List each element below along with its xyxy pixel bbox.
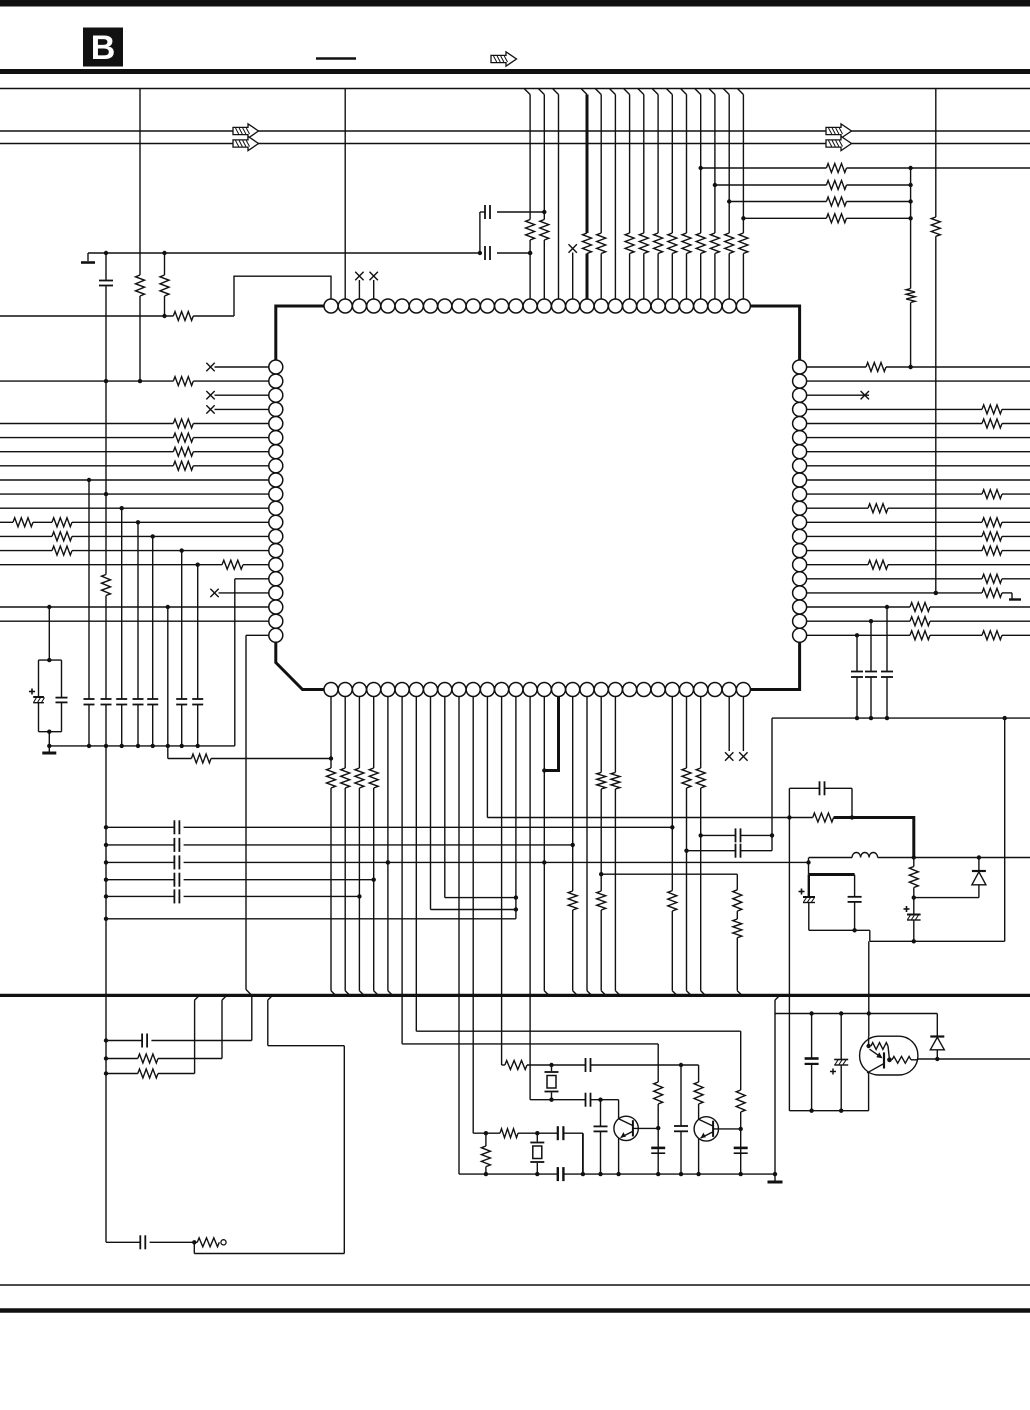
- wire row yA2: [530, 1099, 619, 1101]
- wire cap row 3: [106, 861, 809, 863]
- node junction yB1 x485: [484, 1131, 488, 1135]
- wire vertical x197: [197, 565, 199, 746]
- node junction x106 row4: [104, 878, 108, 882]
- capacitor C-supply-mid: [848, 875, 862, 931]
- wire cap loop: [789, 788, 852, 817]
- wire vertical x106 lower: [105, 705, 107, 1243]
- wire vertical x49: [48, 607, 50, 660]
- node junction T28 tap: [713, 183, 717, 187]
- wire vertical x740: [740, 1031, 742, 1174]
- node junction x910 y218: [908, 216, 912, 220]
- node junction T15 y253: [528, 251, 532, 255]
- wire row R10: [807, 493, 1030, 495]
- wire row yB1: [473, 1132, 583, 1134]
- wire vertical x138: [137, 522, 139, 746]
- wire tap x779: [775, 995, 780, 1013]
- node junction L18 x167: [166, 605, 170, 609]
- wire vertical x167: [167, 607, 169, 759]
- capacitor C-Q2base: [734, 1148, 748, 1153]
- wire row y201: [729, 201, 910, 203]
- node junction bus x89: [87, 744, 91, 748]
- resistor R-T19: [583, 233, 592, 254]
- resistor R-T27: [696, 233, 705, 254]
- resistor R-L6: [173, 433, 193, 442]
- resistor R-x485: [481, 1133, 490, 1174]
- node no-connect L4: [206, 405, 214, 413]
- node junction B1 y758: [329, 756, 333, 760]
- wire vertical x857: [856, 635, 858, 718]
- capacitor C-row2: [174, 838, 179, 852]
- wire row L10: [0, 493, 269, 495]
- wire pin B4 drop: [374, 697, 379, 996]
- resistor R-Q2coll: [694, 1082, 703, 1104]
- wire pin T22 drop: [624, 89, 630, 300]
- wire cap bus y746: [49, 745, 235, 747]
- wire vertical x152: [152, 536, 154, 746]
- wire row y918: [106, 918, 516, 920]
- resistor R-R19: [910, 617, 930, 626]
- resistor R-T30: [739, 233, 748, 254]
- wire bus line y143: [0, 143, 1030, 145]
- wire row L11: [0, 507, 269, 509]
- node junction x167 bus: [166, 744, 170, 748]
- wire pin B18 drop: [573, 697, 578, 996]
- resistor R-x164: [160, 253, 169, 316]
- wire row L16: [235, 578, 269, 580]
- resistor R-y758: [191, 754, 211, 763]
- node junction bus x121: [120, 744, 124, 748]
- wire tap x199: [195, 995, 200, 1073]
- node junction y1242: [192, 1240, 196, 1244]
- wire row L20: [246, 634, 269, 636]
- wire output row y1059: [918, 1058, 1030, 1060]
- resistor R-x737b: [733, 919, 742, 938]
- crystal X2: [530, 1133, 544, 1174]
- wire row y1253: [194, 1253, 344, 1255]
- node B section label: [83, 28, 123, 68]
- wire row y168: [701, 167, 911, 169]
- wire pin T15 drop: [524, 89, 530, 300]
- node junction y316 x164: [162, 314, 166, 318]
- resistor R-B27: [696, 768, 705, 788]
- wire row R3: [807, 391, 869, 399]
- node junction L14 tap: [180, 548, 184, 552]
- node junction x854 y930: [852, 928, 856, 932]
- resistor R-row201: [826, 197, 846, 206]
- wire pin B16 drop: [544, 697, 549, 996]
- capacitor C-cer-left: [56, 660, 68, 732]
- wire row R2: [807, 380, 1030, 382]
- resistor R-x140: [136, 275, 145, 296]
- wire x49 to bus: [48, 732, 50, 746]
- resistor R-row168: [826, 164, 846, 173]
- wire pin T29 drop: [723, 89, 729, 300]
- wire row L19: [0, 620, 269, 622]
- wire header dash: [316, 57, 356, 59]
- wire vertical x181: [181, 551, 183, 746]
- resistor R-B20a: [597, 772, 606, 789]
- wire row y758: [168, 758, 331, 760]
- wire row L6: [0, 437, 269, 439]
- wire row y941: [870, 940, 1005, 942]
- wire row L9: [0, 479, 269, 481]
- node junction x106 y1073: [104, 1071, 108, 1075]
- wire pin B10 drop: [458, 697, 460, 1175]
- node junction B9 row: [514, 895, 518, 899]
- resistor R-L13: [52, 532, 72, 541]
- wire vertical x935: [935, 89, 937, 593]
- capacitor C-rail: [558, 1167, 564, 1181]
- wire vertical x868 lower: [868, 1075, 870, 1111]
- capacitor C-elco-x913: [904, 888, 921, 942]
- resistor R-B1row: [500, 1129, 518, 1138]
- node junction rail x618: [616, 1172, 620, 1176]
- wire corner x869: [869, 930, 871, 941]
- node junction Q1 base: [656, 1126, 660, 1130]
- node junction x106 row3: [104, 860, 108, 864]
- wire pin L1 stub: [215, 366, 269, 368]
- wire row y1242: [106, 1241, 197, 1243]
- node junction rail x600: [598, 1172, 602, 1176]
- resistor R-B4: [369, 768, 378, 788]
- wire vertical x106 mid: [105, 596, 107, 700]
- wire vertical x887: [886, 607, 888, 718]
- wire vertical x789: [788, 818, 790, 1111]
- capacitor C-y850: [736, 844, 741, 858]
- node junction B4: [372, 878, 376, 882]
- wire pin B20 drop: [601, 697, 606, 996]
- wire vertical x871: [870, 621, 872, 718]
- wire row yA1: [502, 1064, 699, 1066]
- wire row R12: [807, 521, 1030, 523]
- resistor R-B26: [682, 768, 691, 788]
- resistor R-R1: [866, 363, 886, 372]
- resistor R-Q2base: [736, 1090, 745, 1112]
- node signal arrow a3: [826, 124, 852, 138]
- op-amp U1 IC body outline top-right: [743, 306, 799, 360]
- wire link to pin T1: [234, 276, 331, 316]
- capacitor C-elco-left: [29, 660, 62, 732]
- node junction B16: [542, 860, 546, 864]
- wire pin B7 drop: [415, 697, 417, 1032]
- resistor R-L12a: [13, 518, 33, 527]
- wire pin L3 stub: [215, 394, 269, 396]
- node junction B18: [571, 843, 575, 847]
- capacitor C-y212: [485, 205, 490, 219]
- resistor R-R11: [868, 504, 888, 513]
- node no-connect B29: [725, 752, 733, 760]
- node junction row3 x808: [806, 860, 810, 864]
- capacitor C-x871: [865, 672, 877, 678]
- wire vertical x737: [737, 874, 742, 995]
- diode D1: [972, 858, 986, 898]
- capacitor C-A2: [586, 1093, 591, 1107]
- capacitor C-x138: [133, 699, 144, 705]
- wire footer thick rule: [0, 1308, 1030, 1313]
- node terminal y1242: [221, 1240, 226, 1245]
- resistor R-B18: [568, 891, 577, 910]
- resistor R-T24: [654, 233, 663, 254]
- wire row R20: [807, 633, 1030, 637]
- resistor R-row218: [826, 214, 846, 223]
- node junction rail x537: [535, 1172, 539, 1176]
- resistor R-R18: [910, 603, 930, 612]
- resistor R-R20: [910, 631, 930, 640]
- node junction B5 row3: [386, 860, 390, 864]
- wire vertical x106 upper: [105, 381, 107, 574]
- node junction T30 tap: [741, 216, 745, 220]
- capacitor C-elco-x841: [830, 1014, 848, 1111]
- capacitor C-y835: [736, 828, 741, 842]
- resistor R-L2: [173, 377, 193, 386]
- wire thick row y874: [809, 873, 855, 876]
- resistor R-R14: [982, 546, 1002, 555]
- node junction L2 x106: [104, 379, 108, 383]
- node junction bus x197: [196, 744, 200, 748]
- resistor R-L8: [173, 461, 193, 470]
- resistor R-x910: [906, 289, 915, 303]
- resistor R-B1: [327, 768, 336, 788]
- resistor R-T28: [710, 233, 719, 254]
- resistor R-L14: [52, 546, 72, 555]
- resistor R-T15: [526, 220, 535, 241]
- wire vertical x582: [582, 1133, 584, 1174]
- wire row L15: [0, 564, 269, 566]
- resistor R-supply: [813, 813, 834, 822]
- node junction y253 x164: [162, 251, 166, 255]
- wire cap row 5: [106, 895, 359, 897]
- wire row y1040: [106, 1040, 252, 1042]
- node junction rail x658: [656, 1172, 660, 1176]
- wire pin T24 drop: [652, 89, 658, 300]
- wire vertical x868 upper: [868, 941, 870, 1036]
- capacitor C-row4: [174, 873, 179, 887]
- node junction y718 x857: [855, 716, 859, 720]
- wire pin B6 drop: [401, 697, 403, 1044]
- wire vertical x775 ground leg: [774, 1014, 776, 1175]
- node junction y253 x530: [528, 251, 532, 255]
- resistor R-T29: [725, 233, 734, 254]
- resistor R-L15: [222, 560, 243, 569]
- wire row y218: [743, 217, 910, 219]
- node junction bus x106: [104, 744, 108, 748]
- resistor R-R20: [982, 631, 1002, 640]
- node junction x913 y941: [912, 939, 916, 943]
- node junction XA top: [549, 1063, 553, 1067]
- wire cap link y212: [480, 211, 544, 213]
- resistor R-T25: [668, 233, 677, 254]
- wire pin B30 stub: [742, 697, 744, 752]
- wire row y316: [0, 315, 234, 317]
- resistor R-L5: [173, 419, 193, 428]
- node signal arrow a1: [233, 124, 259, 138]
- resistor R-R17: [982, 588, 1002, 597]
- wire net y253b: [497, 252, 530, 254]
- wire pin T28 drop: [709, 89, 715, 300]
- node junction x106 row1: [104, 825, 108, 829]
- resistor R-R4: [982, 405, 1002, 414]
- node junction x935 R17: [934, 591, 938, 595]
- node junction x772 y835: [770, 833, 774, 837]
- wire pin B14 drop: [515, 697, 517, 919]
- node junction rail x698: [696, 1172, 700, 1176]
- node junction L2 x140: [138, 379, 142, 383]
- wire row y1013: [775, 1013, 937, 1015]
- node no-connect L17: [210, 589, 218, 597]
- wire row L8: [0, 465, 269, 467]
- wire row y1110: [789, 1110, 868, 1112]
- node junction rail x582: [581, 1172, 585, 1176]
- op-amp U1 IC body outline bottom-right: [743, 642, 799, 689]
- node junction L11 tap: [120, 506, 124, 510]
- ground G4: [768, 1174, 783, 1182]
- node junction x106 row5: [104, 894, 108, 898]
- wire pin T16 drop: [538, 89, 544, 300]
- wire pin B15 drop: [529, 697, 531, 1100]
- wire pin B29 stub: [728, 697, 730, 752]
- resistor R-R12: [982, 518, 1002, 527]
- resistor R-y1058: [138, 1054, 158, 1063]
- wire vertical x658: [657, 1044, 659, 1174]
- wire row R9: [807, 479, 1030, 481]
- wire cap row 2: [106, 844, 573, 846]
- resistor R-T16: [540, 220, 549, 241]
- capacitor C-x121: [116, 699, 127, 705]
- wire pin B12 drop: [486, 697, 488, 818]
- wire vertical x89: [88, 480, 90, 746]
- wire row R6: [807, 437, 1030, 439]
- op-amp U1 IC body outline bottom-left chamfer: [276, 642, 331, 689]
- wire pin T27 drop: [695, 89, 701, 300]
- op-amp U1 left pin circles: [269, 360, 283, 642]
- wire row y835: [701, 834, 772, 836]
- node junction y1059 x937: [935, 1057, 939, 1061]
- node junction bus x152: [151, 744, 155, 748]
- node junction y253 x479: [478, 251, 482, 255]
- resistor R-x913: [909, 867, 918, 888]
- resistor R-B3: [355, 768, 364, 788]
- wire pin T30 drop: [737, 89, 743, 300]
- ground G2: [42, 746, 56, 753]
- resistor R-y316: [173, 312, 193, 321]
- node junction XA bottom: [549, 1098, 553, 1102]
- wire vertical x1004: [1004, 718, 1006, 941]
- capacitor C-x600: [594, 1100, 608, 1174]
- wire row R1: [807, 365, 1030, 369]
- wire box top y718: [772, 717, 1030, 719]
- wire row y930: [809, 929, 870, 931]
- wire tap x226: [222, 995, 227, 1058]
- node junction B27: [699, 833, 703, 837]
- wire row y874: [601, 873, 737, 875]
- capacitor C-x887: [881, 672, 893, 678]
- wire row R13: [807, 535, 1030, 537]
- wire cap row 1: [106, 826, 672, 828]
- wire row L5: [0, 423, 269, 425]
- wire pin B2 drop: [345, 697, 350, 996]
- capacitor C-x811: [805, 1014, 819, 1111]
- wire row R11: [807, 507, 1030, 509]
- node junction rail x681: [679, 1172, 683, 1176]
- op-amp U1 IC body outline top-left: [276, 306, 331, 360]
- wire footer thin rule: [0, 1284, 1030, 1286]
- node signal arrow a4: [826, 136, 852, 150]
- wire pin B26 drop: [687, 697, 692, 996]
- wire pin T20 drop: [595, 89, 601, 300]
- resistor R-B20b: [597, 891, 606, 910]
- wire row y1073: [106, 1073, 195, 1075]
- capacitor C-x89: [84, 699, 95, 705]
- wire pin T18 stub: [572, 253, 574, 300]
- node junction x910 y185: [908, 183, 912, 187]
- op-amp U1 bottom pin circles: [324, 683, 750, 697]
- wire net y253: [88, 252, 480, 254]
- node junction B26: [684, 849, 688, 853]
- wire row R14: [807, 550, 1030, 552]
- node junction y1013 x868: [867, 1011, 871, 1015]
- wire pin T17 drop: [553, 89, 559, 300]
- resistor R-R13: [982, 532, 1002, 541]
- wire pin T25 drop: [666, 89, 672, 300]
- resistor R-x935: [931, 217, 940, 236]
- node junction yA2 x600: [598, 1098, 602, 1102]
- resistor R-T26: [682, 233, 691, 254]
- transistor Q1: [614, 1100, 658, 1174]
- wire row y1044: [402, 1043, 658, 1045]
- resistor R-R5: [982, 419, 1002, 428]
- wire pin T19 drop: [581, 89, 587, 300]
- wire pin T2 drop: [344, 89, 346, 300]
- resistor R-x737a: [733, 890, 742, 911]
- wire row R5: [807, 423, 1030, 425]
- node junction elco top: [47, 658, 51, 662]
- transistor Q2: [694, 1104, 741, 1174]
- node junction x910 y168: [908, 166, 912, 170]
- capacitor C-row5: [174, 889, 179, 903]
- wire pin B17 thick drop: [544, 697, 558, 771]
- capacitor C-y1040: [142, 1034, 147, 1048]
- wire pin B21 drop: [615, 697, 620, 996]
- op-amp U1 right pin circles: [793, 360, 807, 642]
- capacitor C-x152: [147, 699, 158, 705]
- node junction L13 tap: [151, 534, 155, 538]
- resistor R-B2: [341, 768, 350, 788]
- wire pin B25 drop: [672, 697, 677, 996]
- wire row y817: [487, 817, 812, 819]
- resistor R-y1073: [138, 1069, 158, 1078]
- capacitor C-x106: [101, 699, 112, 705]
- node junction rail x485: [484, 1172, 488, 1176]
- wire pin B27 drop: [701, 697, 706, 996]
- node junction T27 tap: [699, 166, 703, 170]
- node junction x106 y1058: [104, 1056, 108, 1060]
- wire row R19: [807, 619, 1030, 623]
- node junction y1013 x841: [839, 1011, 843, 1015]
- node junction x789 y817: [787, 815, 791, 819]
- wire row L12: [0, 521, 269, 523]
- wire row L7: [0, 451, 269, 453]
- node junction x106 row2: [104, 843, 108, 847]
- resistor R-row185: [826, 181, 846, 190]
- resistor R-y1242: [197, 1238, 219, 1247]
- node junction Q2 base: [739, 1127, 743, 1131]
- node junction bus x49: [47, 744, 51, 748]
- node junction x913 y897: [912, 895, 916, 899]
- wire vertical x808: [808, 858, 810, 875]
- node junction x106 y1040: [104, 1038, 108, 1042]
- node no-connect T18: [569, 244, 577, 252]
- capacitor C-row3: [174, 855, 179, 869]
